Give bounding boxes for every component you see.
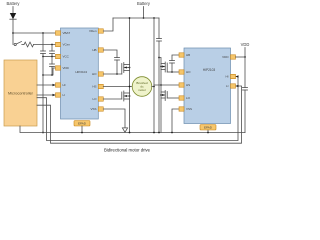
capacitor C2 (50, 45, 55, 57)
wire Q1 drain from rail (129, 18, 131, 65)
wire Q2 source to bus (129, 99, 131, 133)
motor M1 (132, 77, 152, 97)
EPAD U2 (200, 125, 216, 131)
svg-text:LO: LO (92, 97, 97, 101)
node stem to bus (42, 132, 44, 134)
wire Q3 source to Q4 drain (160, 70, 162, 93)
wire HO2 to Q3 gate (167, 71, 179, 73)
pin HS2 (179, 83, 190, 87)
wire battery left to diode (12, 7, 14, 14)
capacitor C7 (243, 57, 248, 133)
pin VBAT (56, 31, 71, 35)
svg-text:VDD: VDD (241, 42, 250, 47)
pin LO (92, 97, 103, 101)
wire battery middle stub (143, 7, 145, 19)
wire VSS1 to ground arrow (103, 109, 125, 128)
wire VDen to rail (103, 18, 113, 31)
node EPAD1 bus (81, 132, 83, 134)
diode D1 (10, 13, 16, 19)
node C3 bottom (51, 74, 53, 76)
pin LI2 (226, 84, 236, 88)
wire diode cathode down (12, 19, 14, 45)
node bootstrap on HO2 wire (171, 71, 173, 73)
pin LO2 (179, 96, 191, 100)
wire VDD feed (43, 68, 56, 75)
capacitor C6 bootstrap right (170, 61, 175, 73)
node Q3 source HS (160, 84, 162, 86)
pin HO2 (179, 70, 191, 74)
wire top battery rail (113, 17, 159, 19)
node battery rail (143, 17, 145, 19)
svg-text:HS: HS (92, 85, 96, 89)
switch S1 (14, 42, 21, 46)
svg-text:VCC: VCC (63, 55, 70, 59)
wire MCU ground stub (20, 126, 245, 133)
pin HI (56, 83, 66, 87)
arrowhead HI (53, 84, 56, 86)
svg-text:EPAD: EPAD (204, 126, 213, 130)
pin VDD2 (222, 55, 235, 59)
svg-text:HO: HO (186, 70, 191, 74)
wire LO1 to Q2 gate (103, 98, 122, 100)
svg-text:EPAD: EPAD (78, 122, 87, 126)
wire HS1 phase line to motor (103, 86, 132, 88)
pin VDen (89, 29, 103, 33)
svg-text:motor: motor (138, 88, 146, 92)
arrowhead LI (53, 94, 56, 96)
wire VDD stub (244, 48, 246, 58)
ground arrow (122, 128, 127, 132)
wire motor right terminal (152, 86, 154, 88)
pin LI (56, 93, 66, 97)
pin VDD (56, 66, 70, 70)
pin VSS2 (179, 107, 192, 111)
wire VDD2 pin to rail (236, 56, 246, 58)
node C5 bus (158, 132, 160, 134)
wire resistor to VCen pin (34, 44, 56, 46)
node on VBAT branch (12, 32, 14, 34)
svg-text:HB: HB (92, 48, 96, 52)
capacitor C1 (41, 33, 46, 57)
svg-text:HO: HO (92, 72, 97, 76)
pin HO (92, 72, 103, 76)
node V1 bus (153, 132, 155, 134)
svg-text:VSS: VSS (90, 107, 96, 111)
wire switch to resistor (22, 44, 24, 46)
wire phase B vertical (153, 18, 155, 133)
svg-text:VCen: VCen (63, 43, 71, 47)
node VDD feed on ground stem (42, 74, 44, 76)
IC U2 HIP2103 (184, 48, 231, 124)
svg-text:Battery: Battery (137, 1, 151, 6)
svg-text:HI: HI (226, 75, 229, 79)
svg-text:VDen: VDen (89, 29, 97, 33)
EPAD U1 (74, 121, 90, 127)
arrowhead LI2 (236, 85, 239, 87)
svg-text:Battery: Battery (7, 1, 21, 6)
microcontroller U3 (4, 60, 37, 126)
wire MCU signal B (37, 86, 242, 143)
battery label left (7, 1, 21, 6)
resistor R1 (24, 42, 34, 47)
transistor Q2 (122, 91, 131, 101)
node Q2 source bus (129, 132, 131, 134)
node rail Q1 drain (129, 17, 131, 19)
wire VSS2 to bus (172, 109, 179, 133)
wire EPAD2 to bus (207, 130, 209, 133)
svg-text:VDD: VDD (222, 55, 229, 59)
transistor Q4 (160, 91, 167, 101)
svg-text:LI: LI (63, 93, 66, 97)
pin HB2 (179, 53, 190, 57)
svg-text:Microcontroller: Microcontroller (8, 92, 34, 96)
pin HI2 (226, 74, 236, 78)
node phase A (129, 86, 131, 88)
IC U1 HIP2104 (61, 28, 99, 119)
svg-text:LO: LO (186, 96, 191, 100)
capacitor C3 (50, 57, 55, 76)
pin VCC (56, 54, 70, 58)
capacitor C4 bootstrap left (115, 58, 120, 75)
capacitor C5 battery (157, 18, 162, 133)
transistor Q1 (122, 63, 131, 75)
wire MCU HI to IC1 (37, 84, 56, 86)
wire HS2 to phase B (154, 84, 179, 86)
node VCC-C1 (42, 56, 44, 58)
node VDD stub (244, 56, 246, 58)
wire EPAD1 to ground bus (81, 126, 83, 133)
svg-text:HS: HS (186, 83, 190, 87)
wire Q1 source to phase A (129, 71, 131, 94)
wire MCU LI to IC1 (37, 94, 56, 96)
wire Q4 source to bus (160, 98, 162, 133)
pin HB (92, 48, 103, 52)
node motor to V1 (153, 86, 155, 88)
pin VCen (56, 42, 71, 46)
wire VBAT rail (13, 32, 56, 34)
wire MCU signal A (37, 77, 238, 141)
svg-text:HIP2103: HIP2103 (203, 68, 216, 72)
node VBAT cap tap (42, 32, 44, 34)
node EPAD2 bus (207, 132, 209, 134)
wire cap return stem (42, 57, 44, 133)
wire LO2 to Q4 gate (167, 97, 179, 99)
node VCen cap tap (51, 44, 53, 46)
svg-text:Bidirectional motor drive: Bidirectional motor drive (104, 147, 151, 152)
node rail Q3 drain (153, 17, 155, 19)
node VCC-C2 (51, 56, 53, 58)
svg-text:HB: HB (186, 53, 190, 57)
wire HB2 to bootstrap (172, 55, 179, 61)
wire HB1 to bootstrap (103, 50, 117, 58)
svg-text:VBAT: VBAT (63, 31, 71, 35)
node Q3 drain tie (158, 57, 160, 59)
svg-text:HI: HI (63, 83, 66, 87)
pin HS (92, 84, 103, 88)
svg-text:HIP2104: HIP2104 (75, 70, 87, 74)
transistor Q3 (159, 58, 167, 73)
node VSS2 bus (171, 132, 173, 134)
svg-text:VSS: VSS (186, 107, 192, 111)
battery label middle (137, 1, 151, 6)
node bootstrap on HO wire (116, 73, 118, 75)
wire HO1 to Q1 gate (103, 73, 122, 75)
svg-text:LI: LI (226, 84, 229, 88)
pin VSS (90, 107, 103, 111)
arrowhead HI2 (236, 75, 239, 77)
VDD label right (241, 42, 250, 47)
svg-text:VDD: VDD (63, 66, 70, 70)
wire VCC line (43, 56, 56, 58)
